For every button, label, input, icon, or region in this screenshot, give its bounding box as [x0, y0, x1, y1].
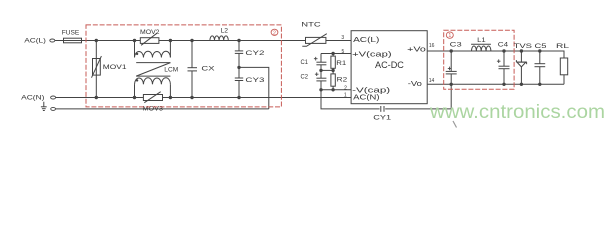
wire AC(N) bottom rail	[55, 97, 351, 99]
wire AC(L) top rail	[55, 40, 351, 42]
capacitor C1	[314, 54, 327, 71]
svg-text:RL: RL	[556, 43, 570, 50]
thermistor NTC	[301, 22, 327, 47]
svg-text:AC(L): AC(L)	[353, 35, 379, 44]
capacitor C5	[535, 51, 546, 84]
wire +V(cap) rail	[321, 53, 351, 55]
inductor L2	[210, 36, 228, 41]
node junction dots cap network	[319, 52, 335, 92]
diode TVS	[516, 51, 526, 84]
node circled 2	[271, 29, 278, 35]
node AC(N) terminal	[51, 96, 56, 99]
wire earth rail	[55, 108, 269, 110]
resistor MOV2 (varistor)	[140, 29, 160, 45]
svg-text:www.cntronics.com: www.cntronics.com	[429, 101, 605, 123]
svg-text:NTC: NTC	[301, 22, 321, 29]
ground earth symbol	[41, 102, 47, 111]
svg-text:L2: L2	[221, 28, 229, 35]
fuse FUSE	[64, 38, 82, 43]
capacitor CY3	[235, 67, 243, 97]
svg-text:C4: C4	[498, 41, 509, 48]
svg-text:3: 3	[341, 35, 344, 41]
svg-text:2: 2	[273, 30, 276, 36]
op-amp U1 AC-DC module box	[351, 31, 427, 104]
svg-text:C2: C2	[301, 74, 309, 81]
svg-text:1: 1	[344, 92, 347, 98]
capacitor CY2	[235, 41, 243, 68]
capacitor C2	[315, 70, 327, 89]
svg-text:+V(cap): +V(cap)	[352, 50, 392, 59]
svg-text:C3: C3	[450, 41, 463, 48]
svg-text:5: 5	[342, 49, 345, 55]
svg-text:AC-DC: AC-DC	[375, 60, 405, 70]
resistor R2	[331, 70, 335, 89]
svg-text:TVS: TVS	[514, 43, 532, 50]
svg-text:AC(L): AC(L)	[24, 38, 46, 45]
wire -V(cap) rail	[321, 89, 351, 91]
node junction dots output	[450, 49, 542, 86]
svg-text:MOV1: MOV1	[103, 64, 127, 71]
red dashed box 1 (output filter)	[444, 30, 514, 89]
resistor MOV1 (varistor)	[92, 56, 128, 78]
resistor RL	[560, 58, 567, 84]
inductor LCM common-mode choke	[135, 41, 171, 98]
capacitor CY1 branch	[321, 84, 451, 112]
svg-text:CY2: CY2	[245, 50, 265, 57]
watermark tick	[453, 121, 457, 128]
capacitor C3	[446, 51, 457, 84]
node junction dots input section	[95, 39, 241, 99]
svg-text:AC(N): AC(N)	[353, 93, 379, 102]
svg-text:C1: C1	[301, 59, 309, 66]
wire earth link from CY midpoint	[239, 67, 269, 109]
resistor MOV3 (varistor)	[143, 92, 164, 113]
svg-text:R2: R2	[337, 77, 348, 84]
svg-text:2: 2	[344, 85, 347, 91]
resistor R1	[331, 54, 335, 71]
svg-text:CY3: CY3	[245, 77, 265, 84]
svg-text:FUSE: FUSE	[62, 30, 80, 37]
svg-text:+Vo: +Vo	[407, 45, 426, 54]
node AC(L) terminal	[50, 39, 55, 42]
svg-text:R1: R1	[336, 60, 347, 67]
wire mid rail	[321, 69, 333, 71]
svg-text:CX: CX	[201, 66, 215, 73]
inductor L1	[471, 44, 491, 51]
svg-text:16: 16	[429, 43, 435, 49]
svg-text:-Vo: -Vo	[408, 79, 422, 88]
capacitor C4	[497, 51, 510, 84]
svg-text:AC(N): AC(N)	[21, 95, 44, 102]
svg-text:14: 14	[429, 78, 435, 84]
svg-text:LCM: LCM	[164, 67, 178, 74]
node earth terminal	[51, 107, 56, 110]
svg-text:C5: C5	[535, 43, 548, 50]
node circled 1	[446, 32, 453, 38]
wire +Vo rail	[427, 51, 564, 58]
capacitor CX	[188, 41, 198, 98]
svg-text:CY1: CY1	[373, 115, 392, 122]
svg-text:1: 1	[448, 33, 451, 39]
svg-text:L1: L1	[477, 37, 486, 44]
wire -Vo rail	[427, 83, 564, 85]
wire MOV1 vertical branch	[95, 41, 97, 98]
red dashed box 2 (input filter)	[86, 25, 281, 107]
svg-text:MOV2: MOV2	[140, 29, 160, 36]
